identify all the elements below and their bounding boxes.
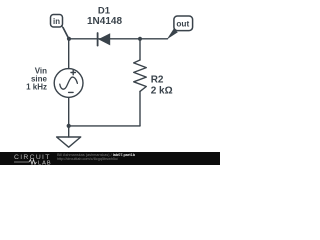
flag box: node out (174, 16, 193, 31)
junction node A (67, 37, 71, 41)
wire: V1 bottom to ground node (68, 97, 70, 126)
resistor R2 zigzag (134, 60, 147, 91)
V1 sine wave (60, 77, 78, 89)
diode D1 triangle (98, 33, 110, 45)
wire: top horizontal net from node in to out leader (69, 38, 168, 40)
flag box: node in (51, 15, 63, 28)
svg-text:D1: D1 (98, 5, 111, 16)
junction node C (ground) (67, 124, 71, 128)
ground symbol triangle (57, 137, 81, 147)
wire: vertical from node A down to V1 top (68, 39, 70, 69)
svg-text:R2: R2 (151, 74, 164, 85)
footer url line 2 (57, 157, 118, 161)
V1 plus sign (71, 72, 75, 74)
in flag leader wedge (61, 25, 70, 40)
wire: resistor top lead (139, 39, 141, 60)
svg-text:2 kΩ: 2 kΩ (151, 85, 173, 96)
voltage source V1 circle (54, 69, 83, 98)
out flag leader wedge (167, 29, 178, 40)
svg-text:1N4148: 1N4148 (87, 16, 122, 27)
junction node B (resistor top) (138, 37, 142, 41)
diode D1 cathode bar (97, 33, 99, 46)
footer attribution line 1 (57, 153, 135, 157)
wire: resistor bottom lead (139, 91, 141, 126)
CircuitLab logo (0, 152, 56, 165)
V1 minus sign (69, 91, 74, 93)
svg-text:in: in (53, 17, 60, 26)
footer bar (0, 152, 220, 165)
ground wire stub (68, 126, 70, 137)
svg-text:LAB: LAB (38, 160, 52, 165)
wire: bottom horizontal net (69, 125, 140, 127)
svg-text:1 kHz: 1 kHz (26, 83, 47, 92)
svg-text:out: out (176, 18, 189, 28)
